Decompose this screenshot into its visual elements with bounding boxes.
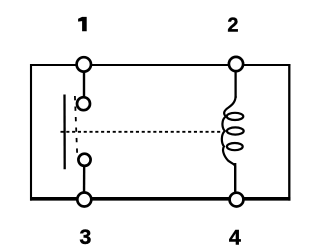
wire: pin 1 to upper contact [83,65,85,103]
terminal pin 3 [77,193,91,207]
svg-text:3: 3 [79,225,91,249]
coil loop 1 [227,113,244,120]
relay case outline (right side) [288,64,290,201]
lower contact circle [78,154,90,166]
wire: coil bottom to pin 4 [234,163,236,199]
coil loop 3 [227,143,243,150]
relay case outline (top side) [30,64,291,66]
relay case outline (left side) [30,64,32,201]
coil loop 2 [227,127,244,134]
relay case outline (bottom side) [30,197,291,201]
terminal pin 2 [229,57,243,71]
mechanical link (dashed horizontal) [61,131,222,133]
upper contact circle [77,97,90,110]
wire: pin 2 to coil top [234,64,236,98]
svg-text:4: 4 [229,225,241,249]
terminal pin 4 [230,193,244,207]
mechanical link (dashed vertical) [75,96,77,155]
terminal pin 1 [77,57,91,71]
wire: lower contact to pin 3 [83,160,86,198]
pin label 1 [78,17,87,31]
svg-text:2: 2 [227,14,238,36]
switch armature bar [63,95,65,170]
coil spine (left side of winding) [222,96,236,191]
